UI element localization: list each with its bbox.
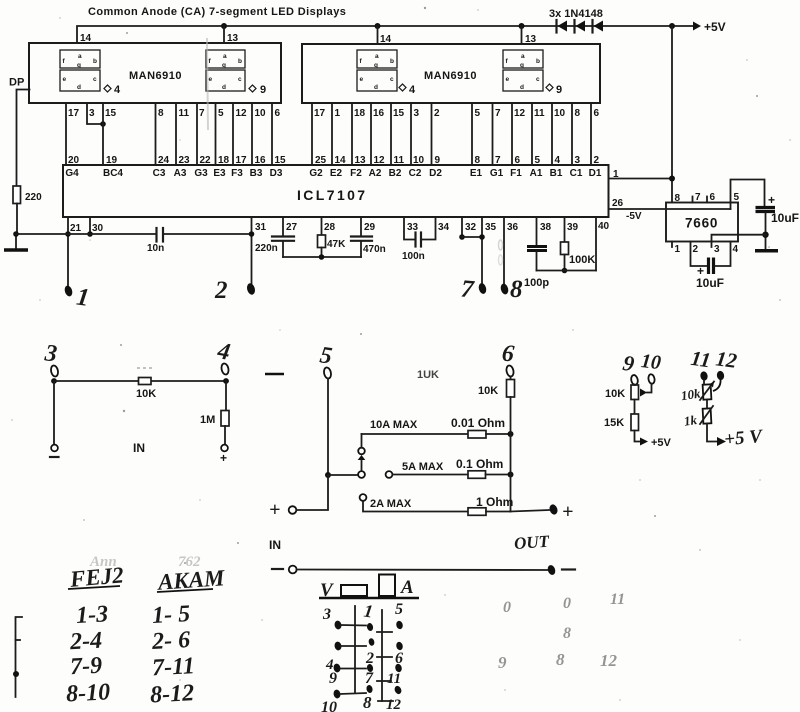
- svg-text:G1: G1: [490, 168, 504, 179]
- svg-text:0: 0: [503, 599, 511, 616]
- svg-text:9: 9: [260, 84, 266, 96]
- svg-text:14: 14: [335, 155, 347, 166]
- svg-text:+: +: [220, 451, 227, 465]
- svg-text:1-3: 1-3: [75, 601, 108, 629]
- svg-text:2- 6: 2- 6: [150, 627, 190, 655]
- svg-text:11: 11: [179, 108, 190, 119]
- svg-text:35: 35: [485, 222, 497, 233]
- ghost loops near pin36: [499, 240, 503, 265]
- svg-text:11: 11: [689, 346, 712, 373]
- trimmer 10k (hand drawn): [680, 380, 714, 403]
- svg-text:b: b: [93, 58, 97, 65]
- svg-text:220: 220: [25, 192, 42, 203]
- svg-text:+: +: [768, 193, 775, 207]
- svg-text:39: 39: [567, 222, 579, 233]
- svg-text:100K: 100K: [569, 254, 595, 266]
- svg-text:a: a: [223, 53, 227, 60]
- DISP2 pin numbers: [314, 108, 600, 119]
- node: rail to DISP2 pin14: [375, 23, 381, 44]
- svg-text:0.01 Ohm: 0.01 Ohm: [451, 416, 505, 430]
- svg-text:d: d: [77, 84, 81, 91]
- svg-text:2: 2: [214, 277, 228, 304]
- svg-text:10: 10: [255, 108, 267, 119]
- paper speckles: [120, 7, 770, 564]
- svg-text:2: 2: [365, 650, 374, 667]
- svg-text:10: 10: [554, 108, 566, 119]
- svg-text:20: 20: [68, 155, 80, 166]
- ground (7660): [755, 249, 778, 253]
- svg-text:3: 3: [89, 108, 95, 119]
- analog common rail: [13, 231, 251, 237]
- svg-text:5: 5: [395, 601, 403, 618]
- resistor 10K (input): [136, 378, 156, 401]
- shunt 0.01 Ohm (10A): [362, 416, 514, 438]
- pin 39 wire / resistor 100K: [561, 217, 596, 273]
- svg-text:10K: 10K: [605, 388, 625, 400]
- svg-text:100n: 100n: [402, 251, 425, 262]
- 7660 top pin labels: [675, 192, 740, 204]
- scanner artifact line: [207, 38, 208, 130]
- svg-text:1k: 1k: [683, 412, 698, 429]
- terminal 11: [689, 346, 712, 381]
- OUT+ terminal: [511, 501, 574, 523]
- svg-text:16: 16: [255, 155, 267, 166]
- svg-text:g: g: [374, 62, 378, 69]
- table row 2: [68, 627, 190, 655]
- svg-text:8: 8: [475, 155, 481, 166]
- svg-text:12: 12: [236, 108, 248, 119]
- svg-text:34: 34: [438, 222, 450, 233]
- svg-text:4: 4: [555, 155, 561, 166]
- svg-text:7: 7: [695, 192, 701, 203]
- svg-text:3: 3: [575, 155, 581, 166]
- svg-text:BC4: BC4: [103, 168, 123, 179]
- svg-text:D1: D1: [589, 168, 602, 179]
- svg-text:d: d: [222, 84, 226, 91]
- svg-text:33: 33: [407, 222, 419, 233]
- terminal 12: [713, 346, 739, 391]
- svg-text:7660: 7660: [685, 216, 718, 231]
- svg-text:+: +: [269, 499, 280, 521]
- DISP1 decimal point 4: [104, 84, 121, 96]
- svg-text:31: 31: [255, 222, 267, 233]
- header pads right: [377, 620, 404, 701]
- svg-text:7: 7: [365, 670, 374, 687]
- svg-text:220n: 220n: [255, 243, 278, 254]
- svg-text:g: g: [222, 62, 226, 69]
- svg-text:2A MAX: 2A MAX: [370, 498, 412, 510]
- svg-text:762: 762: [178, 554, 201, 570]
- pin 28 wire / resistor 47K: [318, 217, 347, 257]
- svg-text:+5V: +5V: [704, 20, 726, 34]
- label OUT: [513, 532, 550, 553]
- svg-text:7: 7: [495, 108, 501, 119]
- svg-text:100p: 100p: [524, 277, 549, 289]
- svg-text:10k: 10k: [680, 386, 702, 404]
- svg-text:F2: F2: [350, 168, 362, 179]
- svg-text:1 Ohm: 1 Ohm: [476, 495, 513, 509]
- svg-text:1- 5: 1- 5: [151, 601, 190, 629]
- node: rail to DISP1 pin13: [221, 23, 227, 43]
- terminal 9: [621, 350, 639, 386]
- svg-text:0.1 Ohm: 0.1 Ohm: [456, 457, 503, 471]
- terminal 6 / resistor 10K: [478, 340, 515, 511]
- svg-text:12: 12: [386, 697, 402, 712]
- svg-text:A3: A3: [174, 168, 187, 179]
- svg-text:2: 2: [693, 244, 699, 255]
- pin 40 wire: [537, 217, 610, 271]
- +5V arrow (hand drawn): [707, 424, 764, 451]
- capacitor 10uF output: [756, 193, 800, 249]
- svg-text:5: 5: [535, 155, 541, 166]
- DISP1 pin numbers: [68, 108, 281, 119]
- handwritten table header FEJ2: [68, 562, 125, 592]
- IC top pin numbers: [68, 155, 600, 166]
- svg-text:d: d: [520, 84, 524, 91]
- svg-text:10uF: 10uF: [771, 211, 799, 225]
- pin 26 stub / -5V: [609, 198, 731, 222]
- minus mark near terminal 5: [265, 373, 284, 376]
- svg-text:MAN6910: MAN6910: [129, 70, 182, 82]
- 7660 pin5 wire to output cap: [731, 180, 765, 210]
- svg-text:36: 36: [507, 222, 519, 233]
- svg-text:3: 3: [322, 606, 331, 623]
- svg-text:9: 9: [329, 670, 337, 687]
- capacitor 220n: [255, 237, 294, 255]
- svg-text:c: c: [390, 76, 394, 83]
- node: rail to DISP2 pin13: [519, 23, 525, 44]
- svg-text:E2: E2: [330, 168, 343, 179]
- svg-text:17: 17: [314, 108, 326, 119]
- svg-text:10n: 10n: [147, 243, 164, 254]
- svg-text:10: 10: [413, 155, 425, 166]
- svg-text:b: b: [390, 58, 394, 65]
- svg-text:470n: 470n: [363, 244, 386, 255]
- svg-text:3x 1N4148: 3x 1N4148: [549, 8, 603, 20]
- svg-text:27: 27: [286, 222, 298, 233]
- svg-text:IN: IN: [133, 441, 145, 455]
- svg-text:A1: A1: [530, 168, 543, 179]
- svg-text:30: 30: [92, 223, 104, 234]
- terminal 4: [215, 338, 232, 384]
- pin 31 wire: [246, 217, 267, 296]
- wire minus leg: [50, 381, 59, 457]
- svg-text:3: 3: [714, 244, 720, 255]
- header pads middle: [366, 622, 376, 693]
- DP label and wire: [9, 77, 30, 187]
- pin 36 wire: [500, 217, 519, 295]
- svg-text:2-4: 2-4: [68, 628, 102, 656]
- svg-text:G2: G2: [309, 168, 323, 179]
- svg-text:6: 6: [710, 192, 716, 203]
- svg-text:8: 8: [563, 625, 571, 642]
- svg-text:8: 8: [158, 108, 164, 119]
- svg-text:15: 15: [105, 108, 117, 119]
- svg-text:B2: B2: [389, 168, 402, 179]
- svg-text:9: 9: [435, 155, 441, 166]
- ground: [4, 234, 28, 250]
- ghost dashes above 10K: [137, 367, 154, 369]
- header numbers: [321, 601, 403, 712]
- svg-text:15K: 15K: [604, 417, 624, 429]
- svg-text:10K: 10K: [136, 388, 156, 400]
- +5V rail: [77, 20, 726, 43]
- handwritten node label 2: [214, 277, 228, 304]
- label IN (volt): [133, 441, 145, 455]
- svg-text:12: 12: [714, 346, 739, 373]
- svg-text:g: g: [77, 62, 81, 69]
- DISP2 digit cell 1: [357, 50, 397, 91]
- svg-text:32: 32: [465, 222, 477, 233]
- resistor 1M: [200, 381, 229, 465]
- handwritten node label 1: [75, 283, 91, 311]
- svg-text:2: 2: [594, 155, 600, 166]
- svg-text:29: 29: [364, 222, 376, 233]
- resistor 15K: [604, 414, 672, 449]
- table row 3: [69, 653, 195, 682]
- svg-text:e: e: [209, 76, 213, 83]
- svg-text:E3: E3: [213, 168, 226, 179]
- DISP1 decimal point 9: [249, 84, 266, 96]
- pin 21 wire: [63, 217, 81, 297]
- IC U1 ICL7107: [63, 165, 609, 217]
- terminal 5: [318, 342, 334, 478]
- svg-text:13: 13: [355, 155, 367, 166]
- shunt 0.1 Ohm (5A): [386, 457, 514, 478]
- svg-text:11: 11: [534, 108, 545, 119]
- DISP2 segment wires to IC: [312, 103, 591, 165]
- svg-text:c: c: [536, 76, 540, 83]
- svg-text:1M: 1M: [200, 414, 215, 426]
- DISP1 digit cell 1: [60, 50, 100, 91]
- svg-text:8-10: 8-10: [65, 679, 110, 707]
- DISP2 decimal point 4: [399, 84, 416, 96]
- svg-text:e: e: [63, 76, 67, 83]
- svg-text:21: 21: [70, 223, 82, 234]
- node: rail to 7660/pin1: [669, 23, 675, 202]
- svg-text:18: 18: [218, 155, 230, 166]
- svg-text:25: 25: [315, 155, 327, 166]
- pins 33/34 capacitor 100n: [402, 217, 450, 262]
- svg-text:47K: 47K: [327, 239, 346, 250]
- pin 38 wire / capacitor 100p: [524, 217, 552, 289]
- svg-text:A: A: [400, 577, 414, 598]
- svg-text:11: 11: [387, 671, 401, 687]
- header pads left: [333, 620, 366, 699]
- svg-text:F3: F3: [231, 168, 243, 179]
- pin 1 stub: [609, 169, 676, 182]
- svg-text:40: 40: [598, 221, 610, 232]
- svg-text:15: 15: [393, 108, 405, 119]
- IC U4 7660: [666, 203, 738, 242]
- svg-text:IN: IN: [269, 538, 281, 552]
- display U2 MAN6910 (left): [29, 43, 281, 103]
- ghost 10K text: [417, 369, 439, 381]
- IC segment names: [65, 168, 601, 179]
- svg-text:8: 8: [363, 693, 372, 712]
- DISP2 digit cell 2: [503, 50, 543, 91]
- svg-text:B3: B3: [250, 168, 263, 179]
- svg-text:19: 19: [106, 155, 118, 166]
- svg-text:4: 4: [409, 84, 416, 96]
- svg-text:d: d: [374, 84, 378, 91]
- svg-text:4: 4: [114, 84, 121, 96]
- svg-text:F1: F1: [510, 168, 522, 179]
- svg-text:28: 28: [324, 222, 336, 233]
- resistor 10K (ref divider): [605, 385, 639, 415]
- table row 4: [65, 679, 194, 708]
- svg-text:6: 6: [275, 108, 281, 119]
- svg-text:12: 12: [600, 651, 618, 670]
- svg-text:1UK: 1UK: [417, 369, 439, 381]
- svg-text:C3: C3: [153, 168, 166, 179]
- svg-text:10: 10: [321, 699, 337, 712]
- DISP1 digit cell 2: [206, 50, 245, 91]
- svg-text:G3: G3: [194, 168, 208, 179]
- svg-text:-5V: -5V: [626, 211, 642, 222]
- svg-text:MAN6910: MAN6910: [424, 70, 477, 82]
- svg-text:5A MAX: 5A MAX: [402, 461, 444, 473]
- svg-text:11: 11: [394, 155, 405, 166]
- svg-text:22: 22: [200, 155, 212, 166]
- diodes D1-D3 3x 1N4148: [549, 8, 603, 33]
- svg-text:16: 16: [373, 108, 385, 119]
- svg-text:10A MAX: 10A MAX: [370, 419, 418, 431]
- bracket mark bottom-left: [13, 617, 22, 697]
- svg-text:OUT: OUT: [513, 532, 550, 553]
- svg-text:3: 3: [43, 340, 59, 367]
- svg-text:5: 5: [218, 108, 224, 119]
- svg-text:7-11: 7-11: [151, 653, 195, 681]
- svg-text:a: a: [521, 53, 525, 60]
- svg-text:B1: B1: [550, 168, 563, 179]
- svg-text:7-9: 7-9: [69, 653, 102, 681]
- svg-text:+5V: +5V: [651, 437, 672, 449]
- table row 1: [75, 601, 190, 629]
- connector header columns: [355, 606, 382, 701]
- svg-text:D2: D2: [429, 168, 442, 179]
- 7660 pump capacitor 10uF: [691, 242, 731, 291]
- terminal 3: [43, 340, 59, 384]
- svg-text:E1: E1: [470, 168, 483, 179]
- svg-text:c: c: [238, 76, 242, 83]
- svg-text:7: 7: [199, 108, 205, 119]
- svg-text:b: b: [536, 58, 540, 65]
- trimmer 1k (hand drawn): [683, 400, 713, 429]
- svg-text:4: 4: [733, 244, 739, 255]
- svg-text:+5 V: +5 V: [723, 426, 764, 450]
- svg-text:11: 11: [610, 591, 625, 608]
- svg-text:2: 2: [434, 108, 440, 119]
- svg-text:DP: DP: [9, 77, 24, 89]
- svg-text:Ann: Ann: [89, 554, 117, 570]
- svg-text:10: 10: [640, 350, 662, 374]
- selector switch: [328, 434, 365, 478]
- svg-text:6: 6: [515, 155, 521, 166]
- svg-text:12: 12: [374, 155, 386, 166]
- svg-text:7: 7: [495, 155, 501, 166]
- svg-text:c: c: [93, 76, 97, 83]
- svg-text:23: 23: [179, 155, 191, 166]
- ghost above FEJ2: [89, 554, 201, 570]
- svg-text:a: a: [78, 53, 82, 60]
- svg-text:12: 12: [514, 108, 526, 119]
- DISP2 decimal point 9: [546, 84, 562, 96]
- svg-text:e: e: [506, 76, 510, 83]
- bottom common rail IN- / OUT-: [269, 538, 575, 576]
- display U3 MAN6910 (right): [302, 44, 600, 103]
- resistor 220: [13, 186, 42, 234]
- 7660 pin3 wire to ground node: [712, 235, 766, 242]
- svg-text:10K: 10K: [478, 385, 498, 397]
- svg-text:8: 8: [575, 108, 581, 119]
- svg-text:6: 6: [395, 650, 403, 667]
- svg-text:8: 8: [675, 193, 681, 204]
- svg-text:0: 0: [563, 595, 571, 612]
- svg-text:A2: A2: [369, 168, 382, 179]
- svg-text:24: 24: [158, 155, 170, 166]
- svg-text:5: 5: [734, 192, 740, 203]
- DISP1 segment wires to IC: [66, 103, 272, 165]
- svg-text:5: 5: [475, 108, 481, 119]
- svg-text:8: 8: [556, 650, 565, 669]
- terminal 10: [640, 350, 662, 396]
- pin 29 wire / capacitor 470n: [351, 217, 386, 257]
- svg-text:8: 8: [510, 276, 523, 303]
- meter icons V / A: [319, 575, 419, 602]
- svg-text:+: +: [562, 501, 573, 523]
- svg-text:10uF: 10uF: [696, 276, 724, 290]
- svg-text:g: g: [520, 62, 524, 69]
- capacitor 10n: [147, 228, 164, 254]
- pin 35 wire: [478, 217, 497, 295]
- svg-text:C1: C1: [570, 168, 583, 179]
- svg-text:1: 1: [675, 244, 681, 255]
- svg-text:C2: C2: [409, 168, 422, 179]
- pin 27 wire: [283, 217, 298, 257]
- svg-text:38: 38: [540, 222, 552, 233]
- svg-text:18: 18: [354, 108, 366, 119]
- ghost bleed-through marks bottom right: [498, 591, 625, 672]
- svg-text:ICL7107: ICL7107: [297, 187, 368, 203]
- shunt 1 Ohm (2A): [360, 494, 514, 515]
- svg-text:D3: D3: [270, 168, 283, 179]
- svg-text:3: 3: [414, 108, 420, 119]
- pin 32 wire: [459, 217, 482, 240]
- svg-text:Common Anode (CA) 7-segment L: Common Anode (CA) 7-segment LED Displays: [88, 6, 346, 18]
- svg-text:9: 9: [556, 84, 562, 96]
- title: Common Anode (CA) 7-segment LED Displays: [88, 6, 346, 18]
- svg-text:17: 17: [236, 155, 248, 166]
- svg-text:6: 6: [594, 108, 600, 119]
- handwritten table header AKAM: [155, 565, 227, 595]
- svg-text:8-12: 8-12: [149, 680, 194, 708]
- svg-text:G4: G4: [65, 168, 79, 179]
- svg-text:9: 9: [498, 653, 507, 672]
- handwritten node label 7: [460, 275, 476, 303]
- pin labels 14 / 13 on risers: [80, 33, 537, 45]
- svg-text:b: b: [238, 58, 242, 65]
- svg-text:e: e: [360, 76, 364, 83]
- svg-text:a: a: [375, 53, 379, 60]
- IN+ terminal: [269, 475, 328, 521]
- svg-text:1: 1: [335, 108, 341, 119]
- wire node3 to node4: [54, 380, 226, 382]
- svg-text:15: 15: [275, 155, 287, 166]
- handwritten node label 8: [510, 276, 523, 303]
- svg-text:17: 17: [68, 108, 80, 119]
- svg-text:26: 26: [612, 198, 624, 209]
